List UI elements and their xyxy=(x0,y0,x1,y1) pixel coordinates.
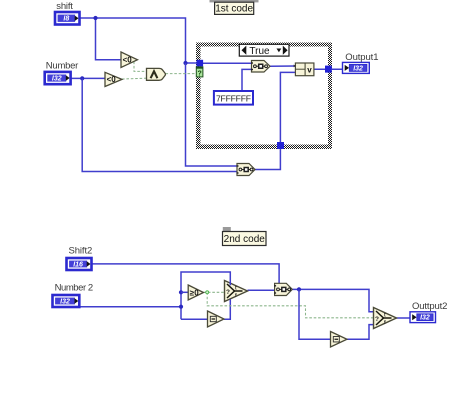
svg-text:I8: I8 xyxy=(63,16,69,23)
svg-text:I32: I32 xyxy=(60,298,70,305)
svg-text:Number: Number xyxy=(46,60,78,71)
svg-text:≥0: ≥0 xyxy=(190,288,199,297)
svg-text:v: v xyxy=(307,66,312,75)
svg-text:I32: I32 xyxy=(353,65,363,72)
svg-text:I32: I32 xyxy=(52,75,62,82)
svg-text:I32: I32 xyxy=(420,315,430,322)
svg-text:True: True xyxy=(249,46,270,57)
svg-text:shift: shift xyxy=(56,1,73,12)
svg-text:7FFFFFF: 7FFFFFF xyxy=(216,93,251,103)
svg-text:<0: <0 xyxy=(107,75,117,84)
svg-text:Output1: Output1 xyxy=(345,52,378,63)
svg-text:?: ? xyxy=(198,71,202,78)
svg-text:2nd code: 2nd code xyxy=(224,234,266,245)
svg-text:?: ? xyxy=(375,316,379,323)
svg-text:Shift2: Shift2 xyxy=(69,245,93,256)
svg-text:<0: <0 xyxy=(123,56,133,65)
svg-text:I16: I16 xyxy=(73,261,83,268)
svg-text:Outtput2: Outtput2 xyxy=(412,301,447,312)
svg-text:1st code: 1st code xyxy=(215,4,253,15)
svg-text:Number 2: Number 2 xyxy=(55,283,93,294)
svg-text:?: ? xyxy=(226,289,230,296)
